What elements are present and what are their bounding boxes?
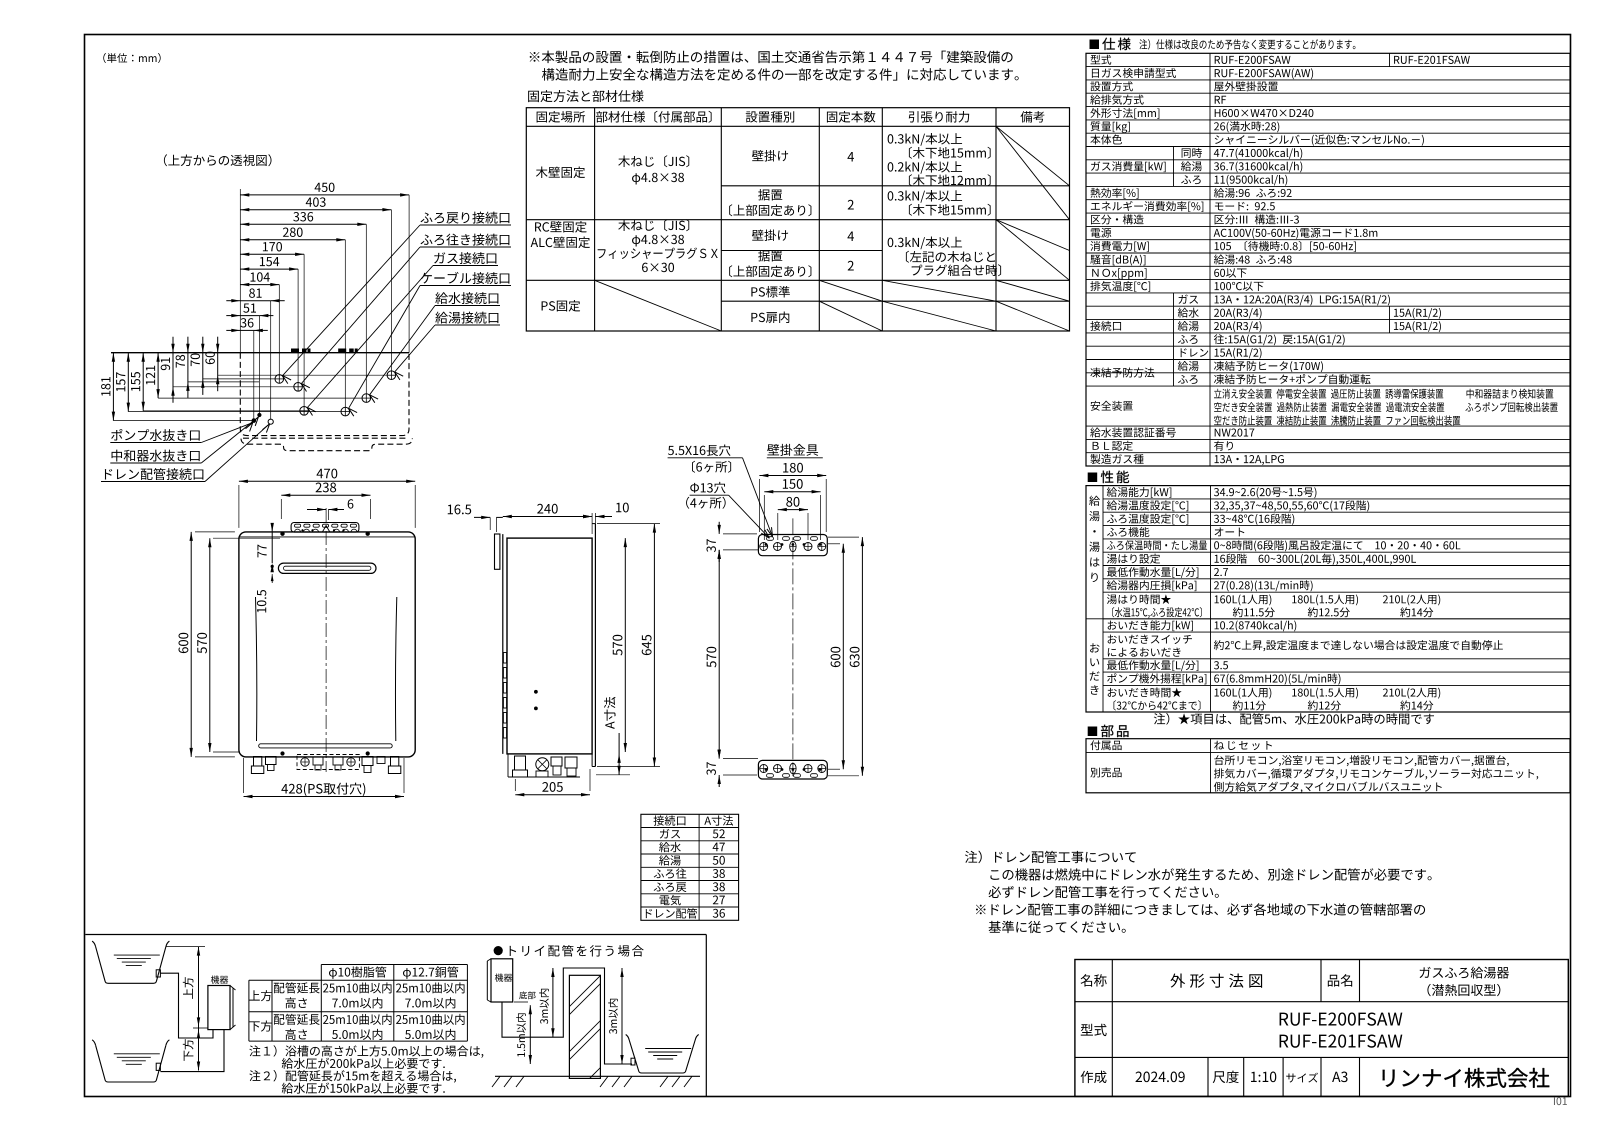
front view body: [239, 532, 415, 757]
kiki unit (left diagram): [208, 986, 230, 1030]
rear dim 37 top: [718, 522, 720, 534]
updown dimension: [198, 947, 200, 1071]
perf header: [1088, 473, 1098, 483]
top view horizontal dimensions: [240, 194, 409, 196]
spec header: [1090, 40, 1100, 50]
torii kiki: [491, 959, 513, 1002]
top view wall line: [111, 352, 409, 354]
dim 3m left: [552, 968, 554, 1037]
front view dim 600: [190, 532, 192, 757]
rear dim 600: [842, 544, 844, 769]
upper pipe: [160, 973, 213, 1038]
rear dim 180: [759, 475, 826, 477]
parts table grid: [1086, 739, 1570, 793]
rear centerline: [792, 518, 794, 776]
rear top bracket: [758, 535, 827, 556]
leaders: [743, 458, 773, 537]
rear dim 80: [778, 509, 808, 511]
rear dim 37 bottom: [718, 747, 720, 759]
side view A dim: [604, 697, 616, 729]
front view dim 238: [281, 494, 370, 496]
torii pipe: [502, 968, 632, 1064]
notice text: [530, 51, 1013, 64]
dim 1.5m: [529, 1005, 531, 1064]
rear view labels 5.5X16: [668, 444, 731, 456]
side view dim 240: [503, 516, 592, 518]
front view wall bracket strip: [291, 523, 359, 533]
fixing table grid: [526, 108, 1069, 331]
fixing table cells: [536, 167, 585, 179]
front view dim 470: [239, 480, 415, 482]
front view dim 77: [271, 523, 273, 563]
piping length table: [321, 964, 467, 966]
upper bathtub: [96, 947, 166, 984]
side view bottom fittings: [515, 756, 526, 770]
extension lines to ports: [113, 420, 251, 422]
side view dim 10: [594, 513, 596, 536]
right bathtub: [629, 1040, 695, 1073]
drain notes: [965, 851, 1136, 864]
rear bottom bracket: [758, 760, 827, 779]
front panel seams: [256, 597, 257, 741]
A-dim table: [641, 814, 739, 920]
spec table rows: [1091, 55, 1112, 65]
top view vertical dimensions: [112, 353, 114, 421]
front view dim 10.5: [271, 565, 274, 568]
bottom-left labels (drain etc.): [111, 429, 200, 441]
label 壁掛金具: [767, 444, 818, 456]
exhaust louver: [278, 563, 376, 573]
fixing table header texts: [537, 111, 585, 123]
side view dim 645: [653, 524, 655, 767]
front view dim 6: [307, 509, 326, 511]
front view dim 570: [209, 538, 211, 752]
connection labels (right): [421, 212, 510, 224]
side view dim 16.5: [448, 505, 471, 515]
side view dim 570: [624, 538, 626, 752]
title block: [1075, 960, 1568, 1097]
perf vertical labels: [1089, 496, 1100, 506]
side view wall bracket: [495, 534, 500, 569]
front view bottom fittings: [254, 757, 262, 767]
side view dim 205: [515, 794, 590, 796]
rear dim 150: [764, 491, 820, 493]
torii title: [494, 946, 503, 955]
piping notes: [249, 1045, 483, 1058]
top view vertical extension lines from dims to ports: [408, 195, 410, 353]
ground line: [495, 1075, 700, 1077]
side louver slats: [503, 653, 506, 664]
unit body outline dashed (top view): [240, 353, 409, 436]
top view title: [164, 154, 272, 166]
lower pipe: [160, 1030, 224, 1072]
fixing table diagonals: [996, 126, 1070, 186]
centerline: [325, 508, 327, 772]
top view connection ports (circles): [275, 375, 284, 384]
wall bracket marks (top view): [291, 349, 299, 353]
rear dim 630: [861, 537, 863, 776]
lower bathtub: [96, 1045, 166, 1082]
parts header: [1088, 727, 1098, 737]
side view rear plate: [592, 523, 595, 525]
dim 3m right: [621, 968, 623, 1064]
perf table grid: [1086, 486, 1570, 712]
spec table grid: [1086, 53, 1570, 466]
side view body: [507, 538, 592, 754]
rear dim 570: [718, 550, 720, 759]
bottom strip: [259, 744, 393, 748]
drain dots: [252, 419, 256, 423]
front view dim 428: [244, 796, 405, 798]
bottom-left box: [85, 934, 706, 936]
